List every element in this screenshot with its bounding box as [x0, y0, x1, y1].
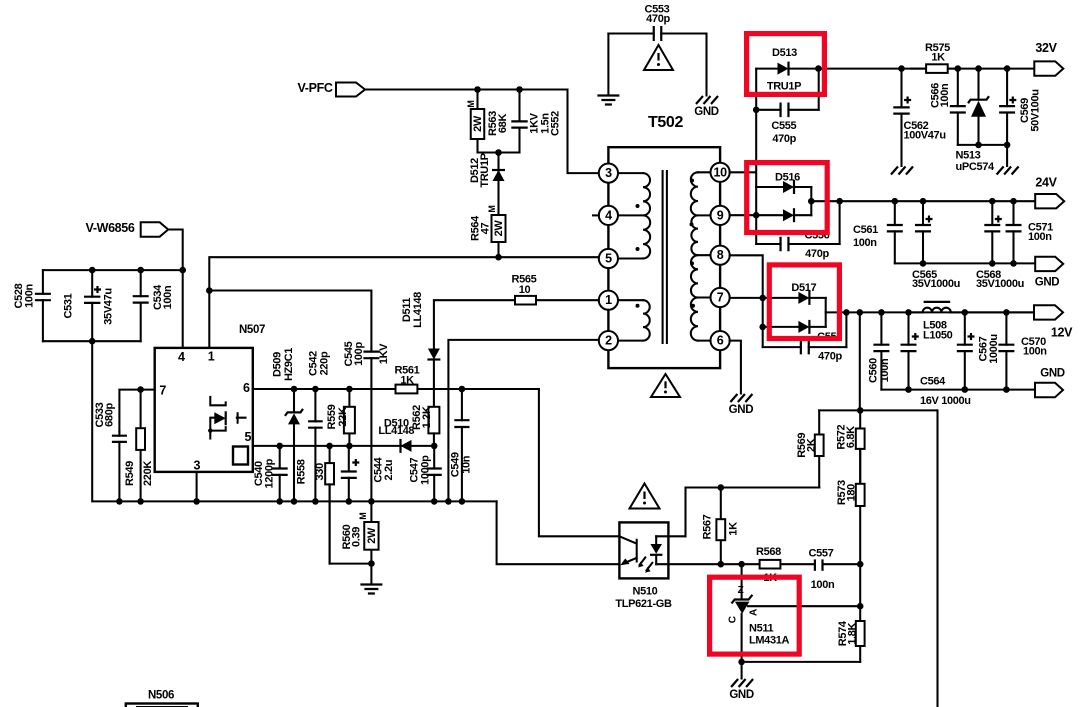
diode D511 LL4148: [428, 349, 440, 360]
ground earth C553 left: [597, 96, 619, 105]
svg-text:D516: D516: [775, 172, 800, 184]
svg-text:GND: GND: [729, 404, 754, 416]
wire pin 6 to GND: [730, 341, 741, 394]
svg-text:M: M: [487, 205, 497, 212]
wire V-PFC rail to transformer pin 3: [365, 90, 599, 174]
svg-text:7: 7: [717, 291, 724, 305]
capacitor C562 100V47u: [900, 69, 902, 166]
node C556 right on rail: [836, 198, 843, 205]
node C562 top: [898, 65, 905, 72]
node D509 top: [291, 386, 298, 393]
resistor R574 1.8K: [859, 606, 861, 662]
wire L508 to 12V connector: [965, 311, 1034, 313]
svg-text:10n: 10n: [460, 455, 472, 474]
svg-text:6.8K: 6.8K: [845, 426, 857, 448]
IC internal driver symbol: [210, 397, 225, 405]
opto phototransistor: [619, 536, 636, 562]
node C571 bottom: [1010, 260, 1017, 267]
resistor R561 1K: [396, 385, 418, 394]
node C568 bottom: [989, 260, 996, 267]
svg-text:68K: 68K: [497, 114, 509, 134]
svg-text:220p: 220p: [318, 351, 330, 375]
svg-text:100n: 100n: [1023, 345, 1047, 357]
node D516 anodes: [753, 212, 760, 219]
svg-text:M: M: [466, 100, 476, 107]
svg-text:1KV: 1KV: [378, 343, 390, 364]
capacitor C571 100n: [1012, 201, 1014, 263]
svg-text:C555: C555: [771, 120, 796, 132]
transformer pin 1: [599, 291, 618, 310]
svg-text:470p: 470p: [646, 13, 670, 25]
node C569 bottom: [1004, 142, 1011, 149]
node D517 lower anode: [759, 324, 766, 331]
capacitor C561 100n: [894, 201, 896, 263]
wire IC pin 6 line: [253, 388, 539, 390]
IC internal pin5 block: [233, 447, 248, 465]
wire R560 bottom to ground: [370, 564, 372, 584]
svg-text:R568: R568: [756, 546, 781, 558]
svg-text:2W: 2W: [366, 527, 378, 544]
capacitor C567 1000u: [964, 312, 966, 389]
svg-text:1200p: 1200p: [264, 458, 276, 488]
node D516 output: [808, 198, 815, 205]
svg-text:1: 1: [605, 293, 612, 307]
wire C531 to primary rail: [92, 341, 496, 501]
transformer pin 7: [711, 288, 730, 307]
transformer core lines: [663, 171, 667, 343]
node D517 upper anode: [759, 295, 766, 302]
svg-text:100n: 100n: [879, 358, 891, 382]
wire R563/C552 bottom join: [478, 151, 520, 153]
svg-text:2W: 2W: [493, 220, 505, 237]
svg-text:1K: 1K: [728, 522, 740, 536]
svg-text:R549: R549: [124, 461, 136, 486]
phase dot sec 8: [690, 261, 694, 265]
svg-text:3: 3: [605, 166, 612, 180]
svg-text:uPC574: uPC574: [956, 161, 995, 173]
capacitor C570 100n: [1005, 312, 1007, 389]
wire C553 left leg: [607, 34, 609, 96]
phase dot winding 1-2: [636, 304, 640, 308]
opto LED: [655, 536, 657, 564]
wire 24V ground bus: [895, 262, 1035, 264]
node R567 top: [718, 484, 725, 491]
svg-text:1.2K: 1.2K: [421, 406, 433, 428]
capacitor C528 100n: [42, 270, 44, 341]
svg-text:0.39: 0.39: [351, 527, 363, 547]
node C567 bottom: [962, 386, 969, 393]
node 330 top: [326, 443, 333, 450]
svg-text:D509: D509: [272, 352, 284, 377]
IC N507 box: [155, 348, 253, 472]
node REF/R574 top: [857, 603, 864, 610]
node C552 top: [516, 86, 523, 93]
svg-text:R567: R567: [702, 514, 714, 539]
wire pin5 line (R564 node to transformer pin 5): [209, 257, 599, 348]
svg-text:T502: T502: [648, 114, 684, 131]
svg-text:470p: 470p: [805, 248, 829, 260]
svg-text:47: 47: [480, 223, 492, 235]
diode D516 upper: [783, 181, 794, 193]
node C567 top: [962, 309, 969, 316]
svg-text:100n: 100n: [162, 285, 174, 309]
capacitor C555 470p: [753, 107, 760, 114]
svg-text:6: 6: [243, 381, 250, 395]
wire D516 cathodes join: [810, 187, 812, 215]
diode D510 LL4148 in pin5 line: [401, 440, 412, 452]
svg-text:N510: N510: [633, 586, 658, 598]
inductor L508 L1050: [909, 311, 923, 313]
node R562/C547 on pin5-IC line: [431, 443, 438, 450]
zener D509 HZ9C1: [293, 389, 295, 501]
node C531 top: [89, 267, 96, 274]
svg-text:100n: 100n: [1028, 231, 1052, 243]
svg-text:C531: C531: [63, 293, 75, 318]
capacitor C565 35V1000u: [922, 201, 924, 263]
svg-text:HZ9C1: HZ9C1: [283, 348, 295, 381]
node N513 bottom: [975, 142, 982, 149]
capacitor C545 100p 1KV: [370, 349, 372, 502]
svg-text:2.2u: 2.2u: [383, 460, 395, 481]
phase dot sec 10: [690, 179, 694, 183]
node TL431 cathode: [738, 561, 745, 568]
resistor R559 22K: [348, 389, 350, 446]
svg-text:100n: 100n: [24, 284, 36, 308]
capacitor C544 2.2u: [348, 446, 350, 502]
svg-text:GND: GND: [729, 689, 754, 701]
node R549 top: [137, 386, 144, 393]
opto light arrows: [640, 558, 653, 571]
svg-text:1: 1: [208, 350, 215, 364]
node C557 right: [857, 561, 864, 568]
wire pin2 line: [448, 340, 598, 502]
svg-text:C561: C561: [853, 224, 878, 236]
transformer pin 8: [711, 246, 730, 265]
transformer T502 core box: [608, 147, 720, 368]
transformer primary winding pins 1-2: [618, 300, 643, 340]
svg-text:GND: GND: [1040, 368, 1065, 380]
wire pin8 line to D517: [730, 255, 763, 347]
capacitor C547 1000p: [433, 446, 435, 502]
wire IC pin 5 line: [253, 445, 434, 447]
svg-text:N506: N506: [148, 690, 174, 702]
wire opto output line to divider: [656, 563, 860, 565]
capacitor C540 1200p: [279, 446, 281, 502]
resistor R562 1.2K: [428, 407, 439, 434]
node pin1-of-IC branch: [206, 287, 213, 294]
node R559 top: [346, 386, 353, 393]
capacitor C533 680p: [118, 432, 120, 502]
wire feedback from 12V rail down: [859, 312, 861, 410]
highlight box D513: [747, 34, 825, 95]
transformer pin 2: [599, 331, 618, 350]
wire V-W6856 to IC pin 4: [168, 230, 183, 348]
svg-text:N513: N513: [956, 150, 981, 162]
node R567 bottom: [718, 561, 725, 568]
ground GND TL431: [731, 679, 753, 687]
svg-text:L1050: L1050: [923, 330, 953, 342]
capacitor C558 470p: [763, 346, 847, 348]
svg-text:Z: Z: [738, 585, 744, 596]
node N513 top: [975, 65, 982, 72]
capacitor C531 35V47u: [91, 270, 93, 341]
node C549 top: [459, 386, 466, 393]
svg-text:D513: D513: [772, 47, 797, 59]
node C534 top: [137, 267, 144, 274]
capacitor C568 35V1000u: [991, 201, 993, 263]
wire divider top horizontal: [819, 409, 937, 411]
resistor R565 10: [515, 299, 536, 301]
svg-text:TRU1P: TRU1P: [767, 81, 801, 93]
resistor R575 1K: [911, 68, 958, 70]
capacitor C560 100n: [880, 312, 882, 389]
node C569 top: [1004, 65, 1011, 72]
diode D517 lower: [763, 326, 799, 328]
svg-text:6: 6: [717, 334, 724, 348]
svg-text:LL4148: LL4148: [378, 425, 414, 437]
primary rail nodes right: [276, 498, 283, 505]
capacitor C534 100n: [140, 270, 142, 341]
warning triangle below transformer: [651, 374, 680, 397]
wire R574 bottom to TL431 anode: [742, 661, 861, 663]
svg-text:8: 8: [717, 248, 724, 262]
transformer primary winding pins 3-4-5: [618, 173, 643, 258]
phase dot sec 9: [690, 222, 694, 226]
capacitor C566 100n: [957, 69, 959, 145]
capacitor C552 1.5n 1KV: [518, 90, 520, 153]
svg-text:35V1000u: 35V1000u: [976, 278, 1024, 290]
node C558 right on rail: [843, 309, 850, 316]
node C545/R560 on rail: [368, 498, 375, 505]
wire R569 bottom to opto LED node: [686, 488, 820, 537]
ground GND C553 right: [696, 96, 718, 104]
svg-text:35V47u: 35V47u: [103, 288, 115, 324]
svg-text:10: 10: [713, 165, 727, 179]
wire Vcc cap bus top: [43, 269, 183, 271]
capacitor C556 470p: [756, 243, 839, 245]
svg-text:TLP621-GB: TLP621-GB: [615, 598, 672, 610]
resistor R563 68K 2W: [476, 90, 478, 153]
wire D513 to 32V rail: [818, 68, 1034, 70]
wire pin10 line to D513 branch: [730, 69, 757, 187]
ground GND transformer pin6: [730, 394, 752, 402]
node R564 bottom on pin5 line: [495, 254, 502, 261]
wire D517 cathodes join: [825, 298, 827, 327]
svg-text:1.8K: 1.8K: [846, 622, 858, 644]
svg-text:100n: 100n: [811, 579, 835, 591]
wire 12V ground bus: [881, 389, 1035, 391]
svg-text:1K: 1K: [931, 52, 945, 64]
capacitor C569 50V100u: [1006, 69, 1008, 145]
optocoupler N510 TLP621-GB box: [619, 522, 668, 578]
svg-text:10: 10: [519, 284, 531, 296]
resistor R567 1K: [720, 488, 722, 565]
svg-text:32V: 32V: [1035, 41, 1057, 55]
wire 330 to R560 bottom: [330, 484, 372, 563]
node C540 top: [276, 443, 283, 450]
transformer pin 5: [599, 249, 618, 268]
node C566 top: [955, 65, 962, 72]
svg-text:2W: 2W: [472, 115, 484, 132]
node R560 bottom: [368, 560, 375, 567]
node C542 top: [312, 386, 319, 393]
shunt regulator N511 LM431A: [741, 564, 743, 599]
wire long right vertical to bottom edge: [936, 410, 938, 707]
wire LED anode to R567 node: [656, 488, 819, 537]
svg-text:12V: 12V: [1051, 325, 1073, 339]
svg-text:4: 4: [178, 350, 185, 364]
node D512 anode: [495, 149, 502, 156]
resistor R568 1K: [760, 560, 781, 569]
svg-text:A: A: [748, 609, 759, 616]
node divider top: [857, 407, 864, 414]
wire D516 output to 24V rail: [811, 200, 1035, 202]
node C560 top: [878, 309, 885, 316]
svg-text:100n: 100n: [939, 83, 951, 107]
resistor R573 180: [859, 449, 861, 564]
svg-text:M: M: [358, 513, 368, 520]
wire opto collector from pin6 line: [539, 389, 620, 536]
svg-text:1K: 1K: [400, 375, 414, 387]
svg-text:C564: C564: [920, 376, 946, 388]
wire pin7 line to D517 upper branch: [730, 297, 799, 299]
svg-text:220K: 220K: [142, 461, 154, 486]
svg-text:V-W6856: V-W6856: [86, 221, 135, 235]
transformer secondary winding pins 10-6: [698, 172, 710, 340]
svg-text:LM431A: LM431A: [749, 634, 789, 646]
svg-text:2: 2: [605, 334, 612, 348]
svg-text:C560: C560: [868, 358, 880, 383]
svg-text:5: 5: [244, 430, 251, 444]
svg-text:7: 7: [159, 384, 166, 398]
phase dot winding 4-5: [636, 247, 640, 251]
svg-text:GND: GND: [1035, 276, 1060, 288]
node C570 top: [1003, 309, 1010, 316]
svg-text:470p: 470p: [772, 133, 796, 145]
node C565 bottom: [920, 260, 927, 267]
svg-text:100V47u: 100V47u: [904, 130, 946, 142]
node R559/C544: [346, 443, 353, 450]
zener N513 uPC574: [977, 69, 979, 145]
wire Vcc cap bus bottom: [43, 340, 141, 342]
svg-text:N511: N511: [749, 623, 774, 635]
node C570 bottom: [1003, 386, 1010, 393]
svg-text:GND: GND: [694, 106, 719, 118]
wire TL431 anode to ground: [741, 662, 743, 679]
svg-text:100p: 100p: [353, 342, 365, 366]
warning triangle near C553: [644, 45, 673, 70]
wire opto emitter from primary rail: [497, 501, 620, 564]
svg-text:TRU1P: TRU1P: [479, 153, 491, 187]
svg-text:C: C: [728, 616, 739, 623]
connector 12V: [1034, 305, 1063, 319]
svg-text:24V: 24V: [1035, 176, 1057, 190]
transformer pin 3: [599, 164, 618, 183]
ground C562: [891, 167, 913, 175]
transformer pin 9: [711, 206, 730, 225]
wire divider mid: [859, 564, 861, 606]
resistor R572 6.8K: [859, 410, 861, 483]
svg-text:16V 1000u: 16V 1000u: [920, 395, 971, 407]
pin 4 stub wire: [593, 214, 599, 216]
node C564 top: [905, 309, 912, 316]
diode D516 lower: [783, 209, 794, 221]
wire R565 line corner to D511: [434, 300, 599, 348]
svg-text:C557: C557: [809, 548, 834, 560]
ground earth R560: [360, 585, 382, 594]
node TL431 anode: [738, 659, 745, 666]
svg-text:R558: R558: [295, 459, 307, 484]
warning triangle above opto: [630, 484, 660, 509]
node C568 top: [989, 198, 996, 205]
diode D513 TRU1P: [756, 68, 777, 70]
svg-text:5: 5: [605, 252, 612, 266]
wire pin9 line and D516 branches: [730, 187, 783, 244]
svg-text:N507: N507: [239, 324, 265, 336]
transformer pin 10: [711, 163, 730, 182]
svg-text:9: 9: [717, 208, 724, 222]
node C565 top: [920, 198, 927, 205]
highlight box D516: [747, 163, 828, 233]
capacitor C542 220p: [314, 389, 316, 446]
wire IC pin 3 to rail: [196, 472, 198, 502]
wire IC pin 7 line: [119, 390, 154, 432]
node C561 top: [892, 198, 899, 205]
phase dot sec 7: [691, 304, 695, 308]
node feedback takeoff: [857, 309, 864, 316]
svg-text:3: 3: [193, 458, 200, 472]
svg-text:50V100u: 50V100u: [1029, 89, 1041, 131]
wire branch to C545: [209, 291, 371, 349]
svg-text:330: 330: [314, 463, 326, 481]
node C531 bottom: [89, 338, 96, 345]
node D513 cathode: [815, 65, 822, 72]
capacitor C549 10n: [461, 389, 463, 501]
svg-text:4: 4: [605, 208, 612, 222]
primary rail nodes: [116, 498, 123, 505]
svg-text:1000p: 1000p: [419, 455, 431, 485]
resistor 330: [329, 446, 331, 564]
phase dot winding 3-4: [636, 204, 640, 208]
diode D512 TRU1P: [497, 153, 499, 216]
transformer pin 6: [711, 331, 730, 350]
svg-text:22K: 22K: [337, 407, 349, 427]
node C564 bottom: [905, 386, 912, 393]
resistor R569 2K: [818, 410, 820, 487]
resistor R549 220K: [140, 390, 142, 502]
svg-text:100n: 100n: [853, 237, 877, 249]
wire C553 right leg: [705, 34, 707, 96]
ground 32V section: [997, 167, 1019, 175]
highlight box N511: [710, 577, 800, 654]
svg-text:D517: D517: [791, 282, 816, 294]
wire TL431 ref: [748, 605, 860, 607]
wire 32V section ground bus: [958, 145, 1007, 166]
svg-text:680p: 680p: [103, 403, 115, 427]
svg-text:LL4148: LL4148: [412, 292, 424, 328]
svg-text:470p: 470p: [818, 350, 842, 362]
node R563 top: [474, 86, 481, 93]
node C571 top: [1010, 198, 1017, 205]
transformer pin 4: [599, 206, 618, 225]
svg-text:2K: 2K: [805, 438, 817, 452]
diode D517 upper: [798, 292, 809, 304]
highlight box D517: [769, 265, 839, 339]
svg-text:180: 180: [845, 484, 857, 502]
node Vcc caps: [179, 267, 186, 274]
svg-text:1000u: 1000u: [988, 334, 1000, 363]
capacitor C557 100n: [814, 559, 816, 570]
